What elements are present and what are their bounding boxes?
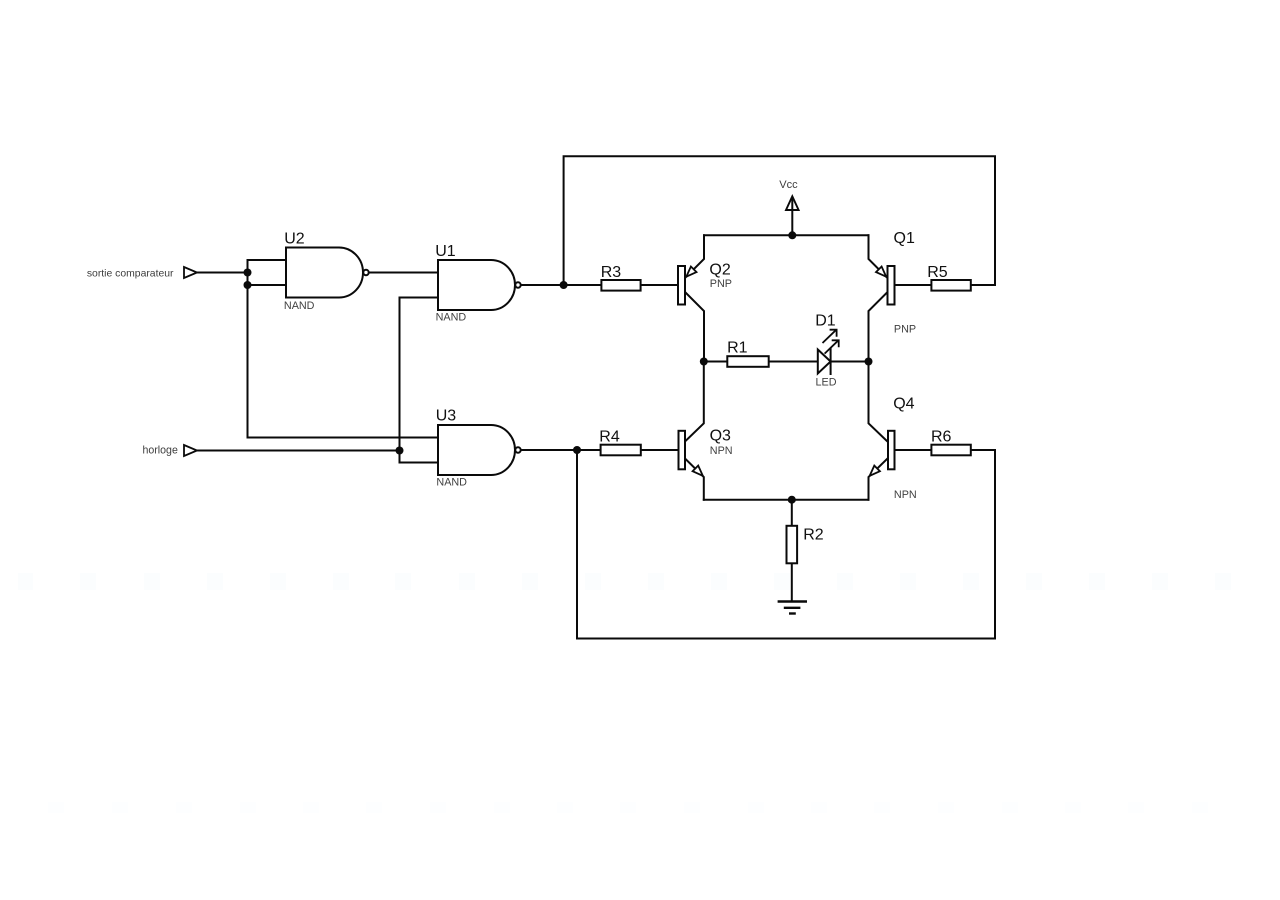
svg-text:Vcc: Vcc [779,179,798,191]
svg-text:horloge: horloge [143,445,178,457]
svg-text:PNP: PNP [710,278,732,290]
svg-text:NPN: NPN [710,445,733,457]
svg-text:R2: R2 [803,527,824,544]
svg-text:R4: R4 [599,429,620,446]
svg-text:NPN: NPN [894,489,917,501]
svg-text:Q1: Q1 [894,230,915,247]
svg-text:PNP: PNP [894,324,916,336]
svg-text:U1: U1 [435,243,456,260]
svg-text:sortie comparateur: sortie comparateur [87,269,174,280]
svg-text:U3: U3 [436,408,457,425]
svg-text:R5: R5 [927,264,948,281]
svg-text:Q2: Q2 [709,262,730,279]
svg-text:R1: R1 [727,340,748,357]
svg-text:NAND: NAND [284,300,315,312]
svg-text:Q4: Q4 [893,396,914,413]
svg-text:NAND: NAND [436,312,467,324]
svg-text:R3: R3 [601,264,622,281]
svg-text:LED: LED [816,377,837,389]
svg-text:U2: U2 [284,231,305,248]
svg-text:Q3: Q3 [710,428,731,445]
svg-text:R6: R6 [931,429,952,446]
svg-text:NAND: NAND [436,477,467,489]
svg-text:D1: D1 [815,313,836,330]
